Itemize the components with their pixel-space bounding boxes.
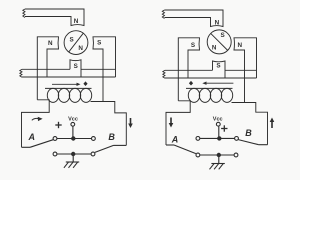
- rotor circle: [64, 31, 88, 55]
- svg-text:N: N: [78, 45, 83, 52]
- wire ground row: [57, 153, 91, 155]
- svg-text:S: S: [74, 63, 78, 70]
- svg-text:N: N: [215, 20, 220, 27]
- wire Vcc stem right fig: [218, 126, 220, 138]
- rotor diagonal right fig: [211, 33, 228, 50]
- current arrow right (down): [128, 118, 133, 128]
- Vcc terminal circle: [71, 122, 75, 126]
- current arrow right side right fig (up): [270, 118, 275, 129]
- flux arrow over coil right fig (points left): [202, 82, 233, 85]
- left pole piece: [37, 37, 58, 100]
- contact circle row2 left right fig: [196, 153, 200, 157]
- svg-text:S: S: [191, 42, 195, 49]
- ground right fig: [210, 155, 225, 169]
- svg-text:N: N: [48, 40, 53, 47]
- magnet bar top right (with break): [162, 10, 223, 27]
- polarity diamond right fig: [189, 81, 193, 86]
- right pole piece right fig: [234, 38, 257, 103]
- svg-text:N: N: [74, 18, 79, 25]
- svg-text:S: S: [220, 32, 224, 39]
- ground: [64, 154, 79, 168]
- node ground junction: [71, 152, 75, 156]
- left pole piece right fig: [178, 38, 199, 101]
- yoke bar (with break): [20, 69, 116, 77]
- contact circle row2 left: [53, 152, 57, 156]
- contact circle row1 left right fig: [196, 137, 200, 141]
- svg-text:N: N: [212, 45, 217, 52]
- svg-text:A: A: [28, 132, 36, 142]
- svg-text:Vcc: Vcc: [213, 117, 224, 123]
- bottom pole piece right fig: [213, 61, 226, 78]
- polarity diamond: [83, 81, 87, 86]
- coil L1: [45, 88, 92, 102]
- switch A lever: [22, 140, 54, 148]
- wire coil left lead: [22, 100, 50, 148]
- switch B lever: [95, 145, 126, 152]
- rotor diagonal: [69, 33, 83, 52]
- svg-text:S: S: [69, 37, 73, 44]
- plus sign: [55, 122, 61, 128]
- wire coil right lead right fig: [232, 103, 268, 145]
- right pole piece: [93, 37, 116, 102]
- svg-text:A: A: [171, 134, 179, 144]
- yoke bar right fig (with break): [163, 70, 257, 78]
- node Vcc junction: [71, 136, 75, 140]
- flux arrow over coil: [52, 83, 81, 86]
- wire coil right lead: [91, 102, 127, 146]
- svg-text:Vcc: Vcc: [68, 117, 79, 123]
- Vcc terminal circle right fig: [216, 122, 220, 126]
- node ground junction right fig: [217, 153, 221, 157]
- current arrow left (curved right): [32, 117, 43, 121]
- svg-text:B: B: [108, 132, 115, 142]
- contact circle row1 left: [53, 137, 57, 141]
- node Vcc junction right fig: [217, 136, 221, 140]
- wire coil left lead right fig: [166, 101, 190, 145]
- svg-text:S: S: [216, 63, 220, 70]
- magnet bar top (with break): [23, 9, 84, 26]
- wire ground row right fig: [200, 154, 234, 156]
- plus sign right fig: [221, 125, 227, 131]
- switch A lever right fig: [166, 145, 196, 154]
- svg-text:S: S: [97, 40, 101, 47]
- current arrow left side right fig (down): [169, 118, 174, 128]
- coil L2: [186, 88, 233, 102]
- wire Vcc row right fig: [200, 137, 235, 139]
- switch B lever right fig: [238, 140, 267, 145]
- contact circle row2 right: [91, 152, 95, 156]
- svg-text:B: B: [245, 128, 252, 138]
- bottom pole piece: [70, 60, 81, 77]
- contact circle row2 right right fig: [234, 153, 238, 157]
- rotor circle right fig: [207, 30, 231, 54]
- wire Vcc stem: [72, 126, 74, 138]
- wire Vcc row: [57, 138, 92, 140]
- contact circle row1 right right fig: [235, 137, 239, 141]
- svg-text:N: N: [238, 42, 243, 49]
- contact circle row1 right: [92, 137, 96, 141]
